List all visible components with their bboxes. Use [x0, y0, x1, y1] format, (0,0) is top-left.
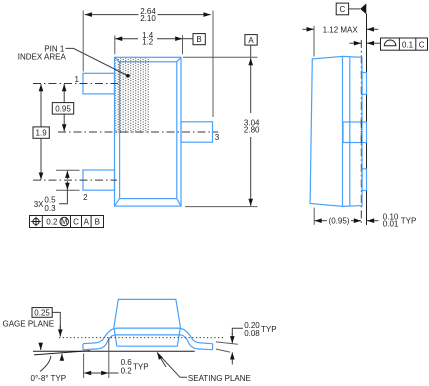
svg-text:0.2: 0.2 [121, 366, 133, 375]
profile of a surface symbol [384, 40, 397, 46]
svg-text:TYP: TYP [401, 217, 417, 226]
package body outer outline [115, 57, 182, 206]
svg-text:2.10: 2.10 [140, 14, 156, 23]
feature control frame position [30, 216, 104, 228]
svg-text:TYP: TYP [261, 325, 277, 334]
dim 0.20/0.08 upper leader/arrow [232, 328, 243, 335]
dim 0.6/0.2 [84, 372, 96, 374]
dim 1.12 MAX [303, 28, 314, 30]
svg-text:1.2: 1.2 [142, 38, 154, 47]
svg-text:2.80: 2.80 [244, 125, 260, 134]
dim 0.5/0.3 leader [59, 190, 67, 203]
profile FCF arrows [350, 42, 362, 44]
svg-text:1.9: 1.9 [36, 129, 48, 138]
dim 1.9 [40, 84, 42, 127]
pin 1 [83, 73, 115, 94]
svg-text:A: A [248, 36, 254, 45]
svg-text:1.12 MAX: 1.12 MAX [323, 25, 359, 34]
side bottom pin [362, 169, 367, 191]
pin 1 centerline [33, 83, 118, 85]
datum C filled triangle [360, 3, 366, 14]
svg-text:M: M [61, 217, 68, 226]
pin 1 index area stipple [115, 58, 150, 133]
datum C leader [349, 8, 361, 10]
lead frame bottom edge [83, 335, 213, 350]
svg-text:INDEX AREA: INDEX AREA [18, 52, 67, 61]
svg-text:B: B [196, 35, 201, 44]
svg-text:0.08: 0.08 [244, 329, 260, 338]
side body front edge line [349, 57, 351, 206]
svg-text:0.95: 0.95 [55, 104, 71, 113]
dim 0.20/0.08 extension lines [216, 342, 238, 344]
dim 2.64/2.10 extension lines [82, 11, 84, 72]
svg-text:0.1: 0.1 [402, 40, 414, 49]
pin 3 [181, 122, 213, 142]
dim 0.20/0.08 lower arrow [231, 352, 233, 364]
angle arrows [40, 343, 42, 351]
angle arc [40, 356, 51, 372]
svg-text:0.25: 0.25 [34, 308, 50, 317]
svg-text:2: 2 [83, 193, 88, 202]
gage leader [52, 312, 60, 330]
datum A box [245, 35, 257, 46]
svg-text:C: C [419, 40, 425, 49]
lead angle line [34, 351, 90, 355]
seating plane line (vertical) [366, 14, 368, 225]
svg-text:(0.95): (0.95) [329, 217, 350, 226]
dim 0.95 [63, 84, 65, 102]
dash-dot over middle pin [360, 120, 362, 145]
lead tips [82, 344, 84, 350]
svg-text:TYP: TYP [133, 363, 149, 372]
svg-text:3: 3 [215, 133, 220, 142]
dim 1.12 MAX extension [313, 26, 315, 57]
datum C box [336, 3, 348, 15]
dim 3.04/2.80 extension lines [183, 56, 258, 58]
SEATING PLANE leader [158, 353, 188, 377]
dim (0.95) [315, 220, 328, 222]
svg-text:0.01: 0.01 [383, 220, 399, 229]
dim 0.6/0.2 extension lines [83, 354, 85, 379]
pin1 index leader [66, 48, 128, 75]
gage plane dotted line [59, 337, 225, 339]
dim 0.10/0.01 [367, 220, 379, 222]
svg-text:1: 1 [75, 75, 80, 84]
svg-text:B: B [95, 217, 100, 226]
pin 2 [83, 170, 115, 190]
datum B box [193, 34, 205, 45]
svg-text:0.3: 0.3 [44, 204, 56, 213]
side middle pin [343, 122, 367, 143]
dim 3.04/2.80 [250, 45, 252, 57]
svg-text:C: C [73, 217, 79, 226]
body profile [114, 299, 180, 346]
dim (0.95) extension [313, 208, 315, 225]
package body inner bevel outline [120, 62, 177, 199]
seating plane line [33, 350, 195, 352]
pin 2 centerline [33, 179, 117, 181]
bevel corner lines [115, 57, 182, 206]
svg-text:0°-8° TYP: 0°-8° TYP [31, 374, 67, 383]
pin 3 centerline [58, 131, 218, 133]
dim 0.5/0.3 extension lines [56, 169, 80, 171]
dim 1.4/1.2 extension lines [114, 35, 116, 54]
0.25 gage box [32, 308, 52, 318]
svg-text:SEATING PLANE: SEATING PLANE [188, 374, 251, 383]
svg-text:GAGE PLANE: GAGE PLANE [3, 319, 55, 328]
side body outline [310, 56, 342, 206]
lead frame top edge [83, 328, 213, 344]
svg-text:0.2: 0.2 [46, 217, 58, 226]
svg-text:A: A [84, 217, 90, 226]
dim 1.4/1.2 [115, 38, 138, 40]
dim 0.5/0.3 arrows [66, 171, 68, 179]
profile of surface FCF [381, 38, 428, 50]
side top pin [362, 73, 367, 95]
svg-text:3X: 3X [34, 200, 44, 209]
lead tip centerline (vertical dash-dot) [360, 40, 362, 225]
dim 2.64/2.10 [85, 14, 139, 16]
position symbol [33, 218, 39, 224]
svg-text:C: C [340, 5, 346, 14]
